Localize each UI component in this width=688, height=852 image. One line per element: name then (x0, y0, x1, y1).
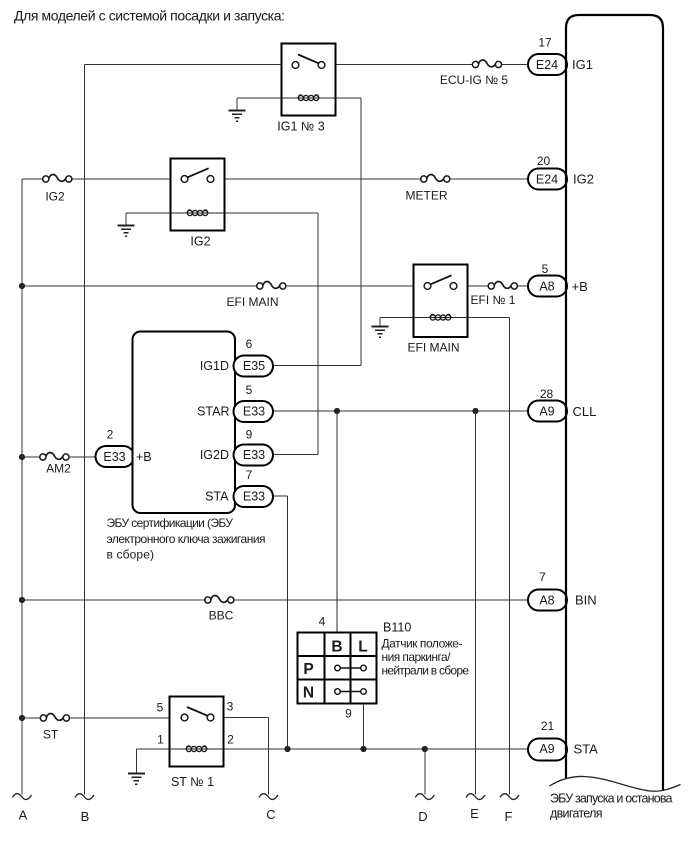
terminal C squiggle (259, 794, 278, 800)
terminal B squiggle (75, 794, 94, 800)
pin 17 label (538, 36, 552, 50)
svg-text:28: 28 (540, 387, 554, 401)
wire: A bus vertical (21, 179, 23, 795)
pin 1 label ST relay (157, 733, 164, 747)
connector A8 pin 7 (528, 590, 567, 611)
svg-text:IG1 № 3: IG1 № 3 (277, 120, 325, 134)
svg-text:нейтрали в сборе: нейтрали в сборе (382, 664, 470, 678)
wire: IG1 relay switch to fuse ECU-IG No.5 (336, 64, 473, 66)
net label CLL (573, 404, 597, 419)
pin 9 label B110 (345, 707, 352, 721)
svg-text:17: 17 (538, 36, 552, 50)
svg-text:9: 9 (246, 428, 253, 442)
wire: relay IG2 switch to fuse METER (225, 178, 421, 180)
svg-text:L: L (358, 639, 367, 656)
svg-text:ST: ST (43, 728, 59, 742)
label IG2 relay (190, 235, 210, 249)
wire: fuse IG2 to relay IG2 (72, 178, 170, 180)
wire: relay ST No.1 coil to connector A9 pin 21 (STA row) (224, 748, 529, 750)
junction dot STA row / STA vertical (284, 746, 290, 752)
svg-text:5: 5 (542, 262, 549, 276)
engine start stop ECU caption (550, 792, 673, 821)
pin 5 label ST relay (157, 701, 164, 715)
svg-text:F: F (505, 809, 513, 824)
terminal F label (505, 809, 513, 824)
engine start stop ECU torn edge wave (550, 776, 681, 791)
svg-text:IG2: IG2 (45, 190, 65, 204)
pin 5 label (542, 262, 549, 276)
park neutral position switch B110 (298, 633, 377, 704)
pin name STAR (197, 405, 229, 419)
label BBC (209, 609, 234, 623)
connector A9 pin 21 (528, 739, 567, 761)
svg-text:EFI № 1: EFI № 1 (471, 293, 516, 307)
pin 6 label (246, 337, 253, 351)
certification ECU caption (107, 516, 266, 562)
label ECU-IG No.5 (440, 73, 509, 87)
pin 7 label BIN (539, 570, 546, 584)
connector E33 pin 9 (234, 445, 274, 466)
wire: ground stub to relay EFI MAIN coil (380, 318, 414, 327)
B110 caption (382, 637, 470, 678)
connector E33 pin 5 (234, 401, 274, 422)
svg-text:BIN: BIN (575, 593, 597, 608)
label +B inside box (136, 450, 152, 464)
terminal B label (81, 809, 90, 824)
wire: fuse ECU-IG No.5 to connector E24 pin 17 (502, 64, 528, 66)
ground for relay IG1 No.3 (229, 111, 246, 122)
ground for relay IG2 (118, 226, 135, 237)
svg-text:IG1: IG1 (572, 57, 593, 72)
junction dot A bus / BBC row (19, 597, 25, 603)
svg-text:ЭБУ запуска и останова: ЭБУ запуска и останова (550, 792, 673, 806)
pin name IG2D (200, 448, 229, 462)
relay ST No.1 (170, 697, 224, 767)
svg-text:A9: A9 (539, 742, 554, 756)
svg-text:D: D (418, 809, 427, 824)
svg-text:5: 5 (157, 701, 164, 715)
svg-text:N: N (303, 685, 314, 702)
wire: D terminal branch vertical (424, 749, 426, 795)
label EFI MAIN relay (407, 341, 459, 355)
fuse ECU-IG No.5 (472, 60, 501, 68)
wire: fuse BBC to connector A8 pin 7 (234, 599, 528, 601)
connector A9 pin 28 (528, 401, 567, 422)
junction dot A bus / ST row (19, 715, 25, 721)
wire: ground stub to IG1 relay coil (237, 98, 282, 111)
svg-text:20: 20 (537, 154, 551, 168)
wire: relay EFI MAIN coil down to F terminal (468, 318, 510, 795)
wire: fuse AM2 to connector E33 pin 2 (69, 456, 95, 458)
svg-text:E35: E35 (243, 359, 265, 373)
svg-text:E33: E33 (243, 405, 265, 419)
svg-text:E24: E24 (536, 173, 558, 187)
wire: B110 pin 4 branch vertical (336, 411, 338, 633)
svg-text:2: 2 (107, 428, 114, 442)
label ST fuse (43, 728, 59, 742)
fuse IG2 (43, 174, 72, 182)
wire: IG2D pin to vertical (273, 454, 318, 456)
fuse BBC (205, 595, 234, 603)
svg-text:A9: A9 (539, 405, 554, 419)
svg-text:3: 3 (227, 700, 234, 714)
svg-text:STAR: STAR (197, 405, 229, 419)
svg-text:6: 6 (246, 337, 253, 351)
wire: A bus to fuse EFI MAIN (22, 285, 257, 287)
svg-text:IG2D: IG2D (200, 448, 229, 462)
fuse METER (421, 174, 450, 182)
wire: A bus to fuse BBC (22, 599, 205, 601)
pin name IG1D (200, 359, 229, 373)
wire: B bus vertical (84, 65, 86, 795)
net label +B (572, 279, 588, 294)
wire: B110 pin 9 down to STA row (363, 704, 365, 750)
label IG1 No.3 (277, 120, 325, 134)
wire: relay ST No.1 switch to C terminal (224, 718, 269, 795)
svg-text:AM2: AM2 (46, 462, 71, 476)
svg-text:C: C (266, 807, 275, 822)
pin 20 label (537, 154, 551, 168)
pin 2 label ST relay (227, 733, 234, 747)
svg-text:EFI MAIN: EFI MAIN (226, 295, 278, 309)
terminal D squiggle (415, 794, 434, 800)
wire: fuse ST to relay ST No.1 (70, 717, 170, 719)
label IG2 fuse (45, 190, 65, 204)
certification ECU box (133, 332, 236, 514)
svg-text:A: A (19, 808, 28, 823)
label ST No.1 (171, 775, 214, 789)
svg-text:BBC: BBC (209, 609, 234, 623)
svg-text:4: 4 (319, 615, 326, 629)
relay IG2 (171, 159, 225, 231)
wire: fuse EFI MAIN to relay EFI MAIN (286, 285, 413, 287)
wire: A bus to fuse IG2 (22, 178, 43, 180)
pin 5 label (246, 383, 253, 397)
svg-text:ния паркинга/: ния паркинга/ (382, 650, 452, 664)
svg-text:E33: E33 (243, 490, 265, 504)
svg-text:двигателя: двигателя (550, 807, 603, 821)
junction dot A bus / AM2 row (19, 454, 25, 460)
pin 2 label (107, 428, 114, 442)
pin 7 label (246, 468, 253, 482)
wire: A bus to fuse AM2 (22, 456, 40, 458)
junction dot STAR row / B110 branch (334, 408, 340, 414)
relay EFI MAIN (414, 265, 468, 338)
wire: relay IG2 coil down to IG2D row (225, 213, 319, 455)
svg-text:2: 2 (227, 733, 234, 747)
pin 21 label (541, 719, 555, 733)
terminal F squiggle (500, 794, 519, 800)
terminal A squiggle (13, 794, 32, 800)
svg-text:Для моделей с системой посадки: Для моделей с системой посадки и запуска… (14, 8, 285, 24)
fuse EFI MAIN (257, 281, 286, 289)
connector A8 pin 5 (528, 276, 567, 297)
wire: A bus to fuse ST (22, 717, 40, 719)
relay IG1 No.3 (282, 44, 336, 116)
svg-text:CLL: CLL (573, 404, 597, 419)
fuse AM2 (40, 452, 69, 460)
pin 4 label B110 (319, 615, 326, 629)
svg-text:A8: A8 (539, 594, 554, 608)
pin 28 label (540, 387, 554, 401)
net label BIN (575, 593, 597, 608)
wire: STA pin down to STA row (273, 496, 288, 749)
connector E33 pin 7 (234, 486, 274, 507)
connector E24 pin 20 (528, 169, 567, 190)
svg-text:E33: E33 (103, 450, 125, 464)
svg-text:9: 9 (345, 707, 352, 721)
page title text (14, 8, 285, 24)
svg-text:5: 5 (246, 383, 253, 397)
svg-text:E33: E33 (243, 448, 265, 462)
svg-text:+B: +B (136, 450, 152, 464)
svg-text:7: 7 (246, 468, 253, 482)
terminal E squiggle (466, 794, 485, 800)
wire: ground stub to relay ST No.1 coil (136, 749, 169, 774)
svg-text:+B: +B (572, 279, 588, 294)
svg-text:B: B (81, 809, 90, 824)
svg-text:ECU-IG № 5: ECU-IG № 5 (440, 73, 509, 87)
wire: E terminal branch vertical (475, 411, 477, 795)
svg-text:В110: В110 (383, 621, 411, 635)
svg-text:METER: METER (406, 189, 448, 203)
terminal D label (418, 809, 427, 824)
wire: IG1D pin to vertical (273, 365, 361, 367)
terminal A label (19, 808, 28, 823)
junction dot A bus / EFI MAIN row (19, 283, 25, 289)
svg-text:B: B (331, 639, 342, 656)
pin name STA (205, 490, 229, 504)
wire: fuse METER to connector E24 pin 20 (450, 178, 528, 180)
label METER (406, 189, 448, 203)
connector E35 pin 6 (234, 356, 274, 377)
svg-text:IG1D: IG1D (200, 359, 229, 373)
svg-text:ЭБУ сертификации (ЭБУ: ЭБУ сертификации (ЭБУ (107, 516, 234, 530)
svg-text:IG2: IG2 (190, 235, 210, 249)
net label IG2 (573, 172, 594, 187)
wire: STAR pin to connector A9 pin 28 (CLL row) (273, 410, 528, 412)
connector E33 pin 2 (96, 446, 135, 467)
ground for relay EFI MAIN (372, 327, 389, 338)
wire: relay EFI MAIN switch to fuse EFI No.1 (468, 285, 489, 287)
net label IG1 (572, 57, 593, 72)
svg-text:в сборе): в сборе) (107, 548, 155, 562)
svg-text:электронного ключа зажигания: электронного ключа зажигания (107, 532, 266, 546)
label AM2 (46, 462, 71, 476)
terminal C label (266, 807, 275, 822)
junction dot STA row / B110 pin 9 (360, 746, 366, 752)
svg-text:21: 21 (541, 719, 555, 733)
label EFI No.1 (471, 293, 516, 307)
svg-text:STA: STA (574, 742, 599, 757)
svg-text:P: P (303, 661, 313, 678)
svg-text:Датчик положе-: Датчик положе- (382, 637, 463, 651)
engine start stop ECU box (566, 15, 663, 791)
label B110 (383, 621, 411, 635)
wire: IG1 relay coil down to IG1D row (336, 98, 362, 366)
label EFI MAIN fuse (226, 295, 278, 309)
svg-text:E: E (470, 806, 479, 821)
wire: B bus horizontal into relay IG1 No.3 (85, 64, 282, 66)
svg-text:IG2: IG2 (573, 172, 594, 187)
pin 3 label ST relay (227, 700, 234, 714)
svg-text:STA: STA (205, 490, 229, 504)
wire: ground stub to relay IG2 coil (126, 213, 171, 226)
svg-text:A8: A8 (539, 280, 554, 294)
svg-text:1: 1 (157, 733, 164, 747)
wire: fuse EFI No.1 to connector A8 pin 5 (518, 285, 528, 287)
terminal E label (470, 806, 479, 821)
net label STA (574, 742, 599, 757)
svg-text:EFI MAIN: EFI MAIN (407, 341, 459, 355)
junction dot STA row / D branch (422, 746, 428, 752)
fuse ST (40, 713, 69, 721)
junction dot STAR row / E branch (472, 408, 478, 414)
connector E24 pin 17 (528, 54, 567, 75)
pin 9 label (246, 428, 253, 442)
svg-text:7: 7 (539, 570, 546, 584)
ground for relay ST No.1 (128, 774, 145, 785)
svg-text:ST № 1: ST № 1 (171, 775, 214, 789)
fuse EFI No.1 (488, 281, 517, 289)
svg-text:E24: E24 (536, 58, 558, 72)
